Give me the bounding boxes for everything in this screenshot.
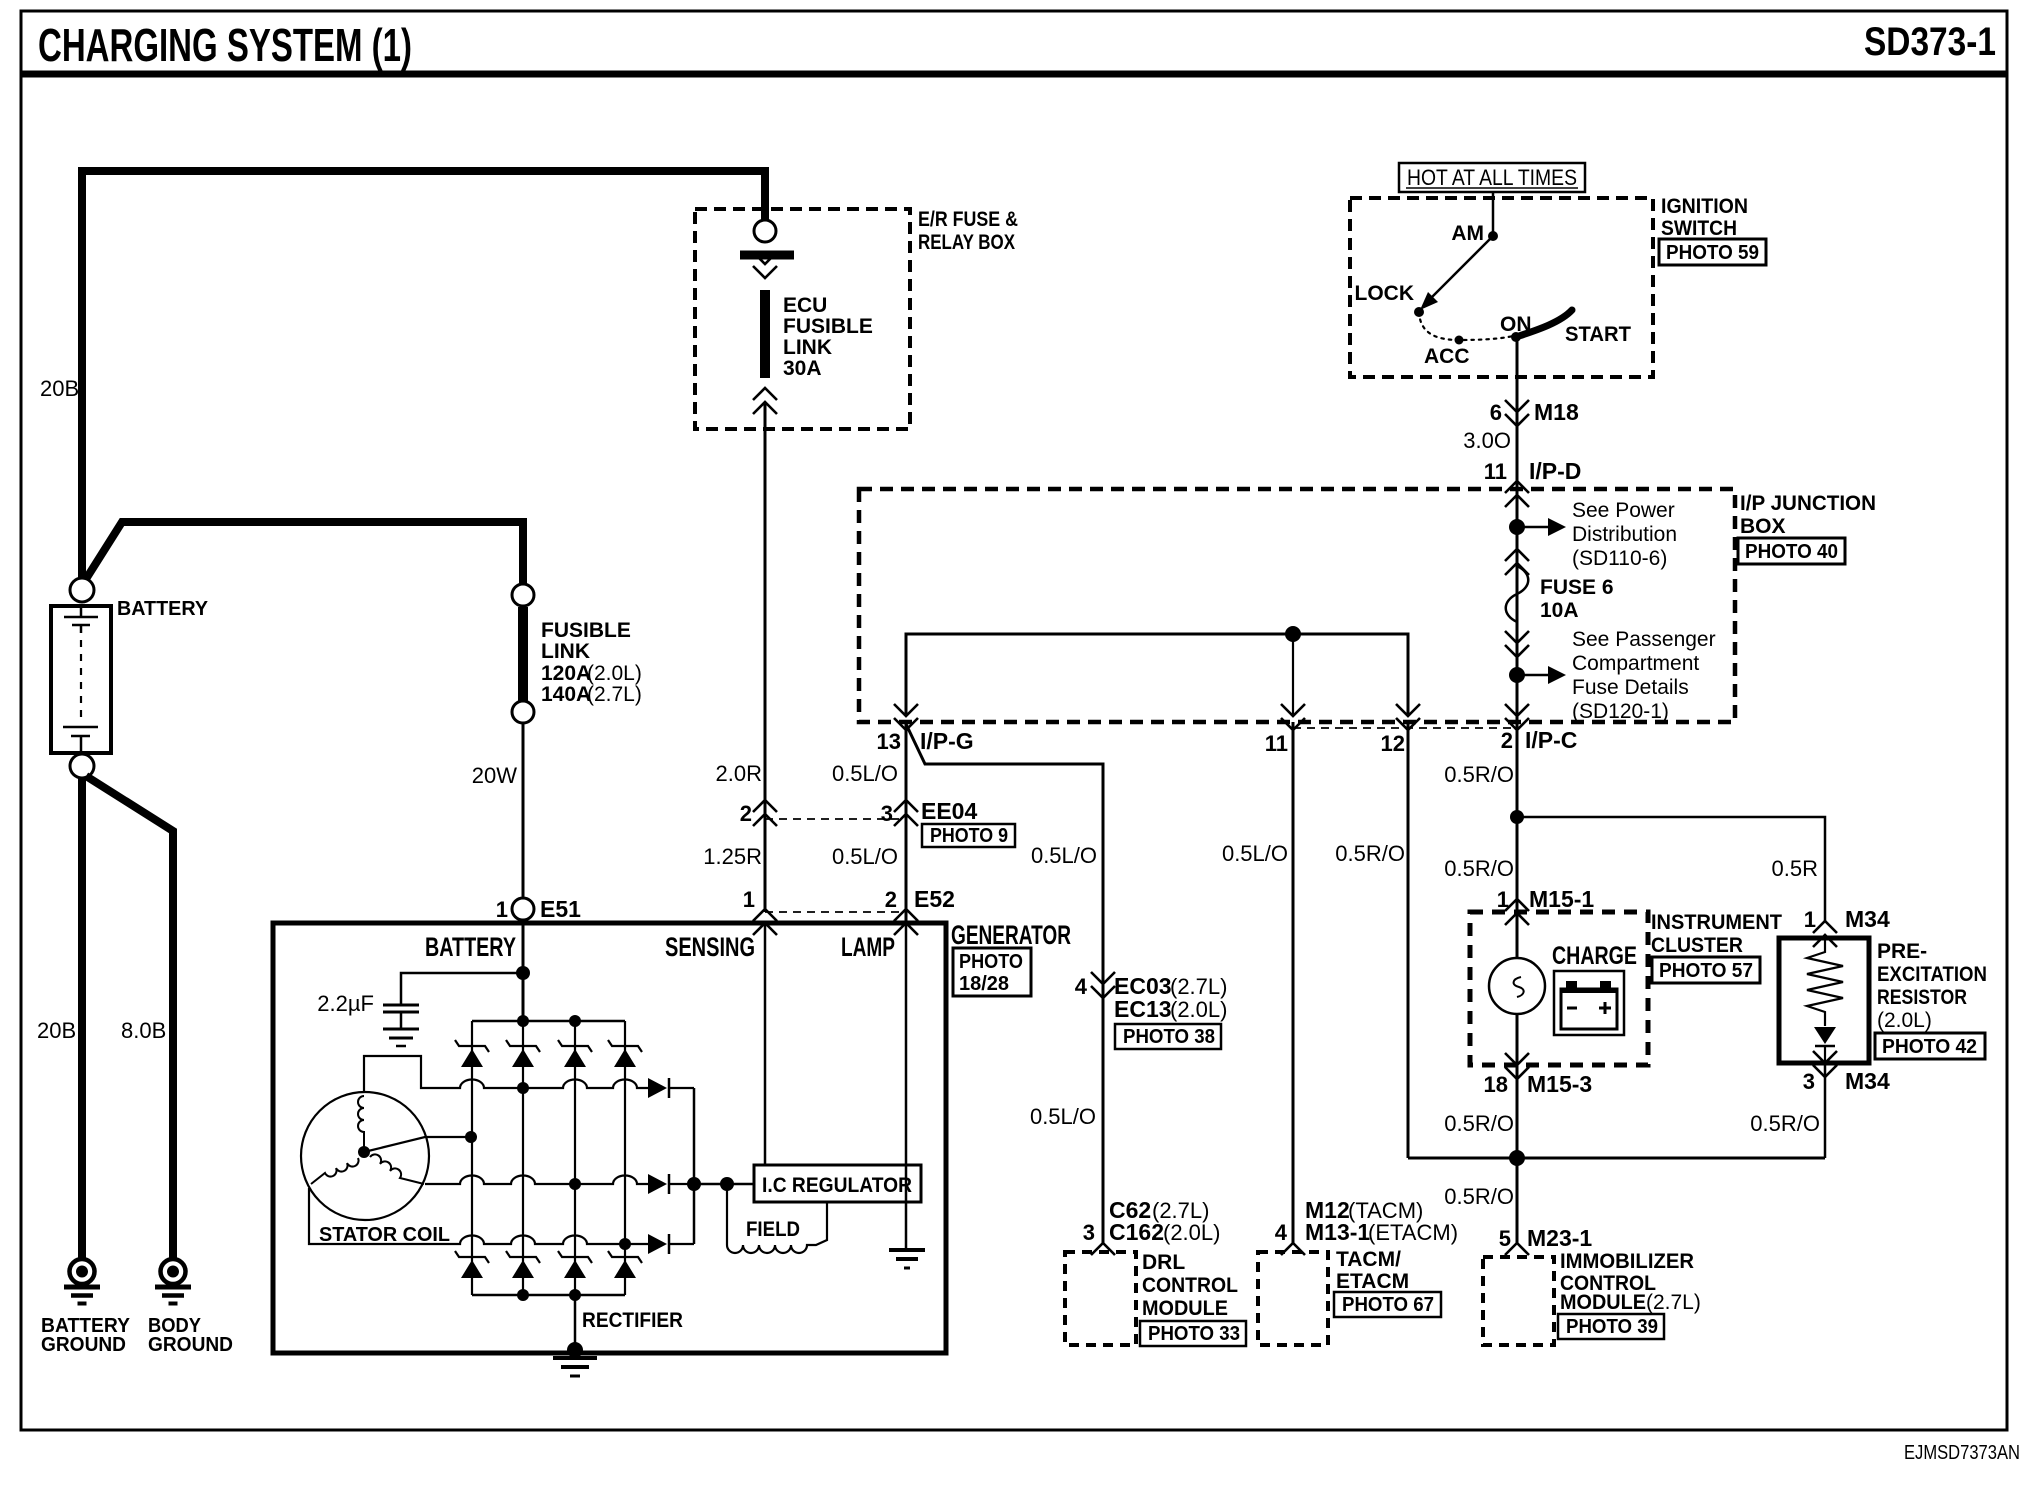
svg-text:M13-1: M13-1 <box>1305 1219 1370 1245</box>
svg-text:M18: M18 <box>1534 399 1579 425</box>
svg-text:PHOTO 39: PHOTO 39 <box>1566 1316 1658 1338</box>
connector M12 chevron <box>1281 1243 1305 1255</box>
svg-text:11: 11 <box>1265 731 1288 756</box>
svg-text:0.5R/O: 0.5R/O <box>1444 1184 1514 1209</box>
svg-text:I/P-D: I/P-D <box>1529 458 1581 484</box>
connector EE04 pin3 chevrons <box>894 800 918 812</box>
connector pin11 chevrons <box>1281 704 1305 716</box>
svg-text:18/28: 18/28 <box>959 973 1009 995</box>
ignition AM terminal dot <box>1488 231 1498 241</box>
svg-text:CHARGE: CHARGE <box>1552 942 1637 970</box>
connector E51 circle <box>512 898 534 920</box>
svg-text:GROUND: GROUND <box>148 1334 233 1356</box>
svg-text:I/P-C: I/P-C <box>1525 727 1577 753</box>
wire through cluster <box>1516 912 1519 1065</box>
node splice M23-1 <box>1509 1150 1525 1166</box>
svg-text:140A: 140A <box>541 683 591 706</box>
zener diode upper col3 <box>558 1040 592 1052</box>
svg-text:See Power: See Power <box>1572 499 1675 522</box>
svg-text:1: 1 <box>1804 907 1816 932</box>
node field tap <box>720 1177 734 1191</box>
svg-text:1: 1 <box>1497 887 1509 912</box>
svg-text:I/P-G: I/P-G <box>920 728 974 754</box>
fusible link terminal circle (bottom) <box>512 701 534 723</box>
diode row A (right) <box>648 1078 667 1098</box>
svg-text:MODULE: MODULE <box>1142 1297 1228 1320</box>
zener diode upper col2 <box>506 1040 540 1052</box>
battery terminal circle (top) <box>70 578 94 602</box>
wire ECU fusible link to EE04 pin2 <box>764 404 767 912</box>
svg-text:(2.7L): (2.7L) <box>587 683 642 706</box>
rectifier column 2 <box>522 1021 524 1295</box>
svg-text:12: 12 <box>1381 731 1405 756</box>
svg-text:RESISTOR: RESISTOR <box>1877 986 1967 1009</box>
svg-text:E51: E51 <box>540 896 581 922</box>
svg-text:18: 18 <box>1484 1072 1508 1097</box>
svg-text:0.5L/O: 0.5L/O <box>1031 843 1097 868</box>
connector EE04 dashed link <box>765 818 906 820</box>
svg-text:0.5R/O: 0.5R/O <box>1750 1111 1820 1136</box>
wire branch to M34 pin1 <box>1517 817 1825 921</box>
svg-text:SWITCH: SWITCH <box>1661 217 1737 240</box>
ignition ON terminal dot <box>1511 332 1521 342</box>
svg-text:PHOTO 33: PHOTO 33 <box>1148 1323 1240 1345</box>
connector M18 chevrons <box>1505 400 1529 412</box>
wire stator center to col1 <box>364 1137 471 1152</box>
svg-text:0.5L/O: 0.5L/O <box>1222 841 1288 866</box>
svg-text:120A: 120A <box>541 662 591 685</box>
svg-text:LINK: LINK <box>541 640 590 663</box>
svg-text:IMMOBILIZER: IMMOBILIZER <box>1560 1250 1694 1273</box>
connector E52 dashed link <box>765 911 906 913</box>
stator coil circle <box>301 1092 429 1220</box>
svg-text:(2.7L): (2.7L) <box>1646 1291 1701 1314</box>
svg-text:0.5L/O: 0.5L/O <box>832 761 898 786</box>
svg-text:2: 2 <box>1501 728 1513 753</box>
ECU fusible link terminal circle <box>754 220 776 242</box>
wire 8.0B to body ground (heavy) <box>86 776 173 1258</box>
svg-text:11: 11 <box>1484 459 1507 484</box>
svg-text:RECTIFIER: RECTIFIER <box>582 1309 683 1332</box>
svg-text:SD373-1: SD373-1 <box>1864 20 1996 64</box>
wire junction horizontal <box>1408 1157 1825 1160</box>
svg-text:(SD120-1): (SD120-1) <box>1572 700 1669 723</box>
node bottom bus col2 <box>517 1289 529 1301</box>
svg-text:FUSIBLE: FUSIBLE <box>783 315 873 338</box>
PHOTO 39 box <box>1558 1314 1664 1339</box>
zener diode lower col4 <box>608 1251 642 1263</box>
svg-text:(2.0L): (2.0L) <box>1163 1220 1220 1245</box>
svg-text:Distribution: Distribution <box>1572 523 1677 546</box>
ignition switch blade <box>1431 236 1493 298</box>
svg-text:3: 3 <box>1803 1069 1815 1094</box>
wire pin11 to M12 <box>1292 722 1295 1243</box>
rectifier top bus <box>472 1020 625 1023</box>
svg-text:(ETACM): (ETACM) <box>1368 1220 1458 1245</box>
node generator case ground <box>567 1342 583 1358</box>
rectifier column 1 <box>471 1021 473 1295</box>
wire ON to M18 <box>1516 341 1519 489</box>
svg-text:ECU: ECU <box>783 294 827 317</box>
svg-text:2: 2 <box>885 887 897 912</box>
svg-text:GENERATOR: GENERATOR <box>951 920 1071 950</box>
ignition LOCK terminal dot <box>1414 307 1424 317</box>
fuse 6 chevrons (top) <box>1505 549 1529 561</box>
svg-text:SENSING: SENSING <box>665 932 755 962</box>
ECU fusible link chevrons (bottom) <box>753 388 777 400</box>
battery ground symbol <box>70 1259 95 1284</box>
svg-text:3: 3 <box>881 801 893 826</box>
svg-text:E52: E52 <box>914 886 955 912</box>
battery BATTERY <box>51 606 111 753</box>
svg-text:RELAY BOX: RELAY BOX <box>918 231 1015 254</box>
wire to I.C regulator <box>694 1183 754 1186</box>
svg-text:BATTERY: BATTERY <box>117 598 209 620</box>
wire sensing to regulator <box>764 923 767 1165</box>
connector pin12 chevrons <box>1396 704 1420 716</box>
title band divider <box>21 71 2007 78</box>
svg-text:(SD110-6): (SD110-6) <box>1572 547 1667 570</box>
rectifier column 4 <box>624 1021 626 1295</box>
svg-text:1.25R: 1.25R <box>703 844 762 869</box>
svg-text:PHOTO 9: PHOTO 9 <box>930 825 1008 847</box>
connector EE04 pin2 chevrons <box>753 800 777 812</box>
svg-text:STATOR COIL: STATOR COIL <box>319 1224 450 1246</box>
wire I/P-G pin13 branch to EC03 <box>906 724 1103 1243</box>
ECU fusible link chevrons (top) <box>753 252 777 264</box>
svg-text:0.5L/O: 0.5L/O <box>832 844 898 869</box>
svg-text:4: 4 <box>1075 974 1088 999</box>
E/R fuse & relay box (dashed) <box>695 209 910 429</box>
svg-text:LINK: LINK <box>783 336 832 359</box>
svg-text:EC13: EC13 <box>1114 996 1172 1022</box>
connector M23-1 chevron <box>1505 1243 1529 1255</box>
rectifier bottom bus <box>472 1294 625 1297</box>
pre-excitation resistor box <box>1779 938 1869 1063</box>
fusible link 120A/140A element (heavy bar) <box>518 607 528 701</box>
svg-text:FIELD: FIELD <box>746 1218 800 1241</box>
svg-text:5: 5 <box>1499 1226 1511 1251</box>
stator phase wire row A <box>364 1056 648 1092</box>
node top bus col3 <box>569 1015 581 1027</box>
PHOTO 67 box <box>1334 1292 1441 1317</box>
svg-text:M15-1: M15-1 <box>1529 886 1594 912</box>
fusible link terminal circle (top) <box>512 584 534 606</box>
node branch to pre-excitation resistor <box>1510 810 1524 824</box>
svg-text:Fuse Details: Fuse Details <box>1572 676 1689 699</box>
svg-text:0.5R/O: 0.5R/O <box>1335 841 1405 866</box>
svg-text:0.5R/O: 0.5R/O <box>1444 856 1514 881</box>
svg-text:M34: M34 <box>1845 1068 1890 1094</box>
svg-text:2: 2 <box>740 801 752 826</box>
svg-text:PHOTO 67: PHOTO 67 <box>1342 1294 1434 1316</box>
PHOTO 57 box <box>1652 957 1760 983</box>
diode row C (right) <box>648 1234 667 1254</box>
svg-text:CONTROL: CONTROL <box>1142 1274 1238 1297</box>
node top bus col2 <box>517 1015 529 1027</box>
wire pin12 to junction <box>1407 722 1410 1158</box>
svg-text:LAMP: LAMP <box>841 932 895 962</box>
stator winding left <box>311 1158 359 1184</box>
connector M34 pin3 chevrons <box>1813 1051 1837 1063</box>
connector I/P-C pin2 chevrons <box>1505 704 1529 716</box>
svg-text:LOCK: LOCK <box>1355 282 1415 305</box>
svg-text:M34: M34 <box>1845 906 1890 932</box>
zener diode upper col1 <box>455 1040 489 1052</box>
battery terminal circle (bottom) <box>70 754 94 778</box>
PHOTO 9 box <box>922 824 1015 847</box>
wire I/P-C pin2 to M23-1 <box>1516 722 1519 1243</box>
node row C col4 <box>619 1238 631 1250</box>
svg-text:PHOTO 42: PHOTO 42 <box>1882 1036 1977 1058</box>
svg-text:(2.0L): (2.0L) <box>1877 1009 1932 1032</box>
connector I/P-D chevrons (box top) <box>1505 481 1529 493</box>
connector I/P-G pin13 chevrons <box>894 704 918 716</box>
ECU fusible link contact bar <box>740 251 794 260</box>
wire hot feed to AM <box>1492 192 1495 233</box>
battery icon <box>1561 989 1617 1029</box>
svg-text:CHARGING SYSTEM (1): CHARGING SYSTEM (1) <box>38 19 412 71</box>
wire 20B to battery ground (heavy) <box>78 777 86 1258</box>
charge indicator bulb <box>1489 958 1545 1014</box>
zener diode upper col4 <box>608 1040 642 1052</box>
svg-text:START: START <box>1565 323 1631 346</box>
rectifier column 3 <box>574 1021 576 1295</box>
svg-text:EE04: EE04 <box>921 798 977 824</box>
svg-text:ETACM: ETACM <box>1336 1270 1409 1293</box>
resistor element <box>1807 938 1843 1026</box>
wire bottom bus to case ground <box>574 1295 577 1348</box>
svg-text:TACM/: TACM/ <box>1336 1248 1401 1271</box>
wire I/P-G pin13 to E52 pin2 (lamp) <box>905 722 908 921</box>
svg-text:PHOTO 38: PHOTO 38 <box>1123 1026 1215 1048</box>
capacitor 2.2uF <box>383 1004 419 1007</box>
svg-text:20B: 20B <box>37 1018 76 1043</box>
wire fusible link to E51 <box>522 723 525 898</box>
svg-text:13: 13 <box>877 729 901 754</box>
svg-text:I/P JUNCTION: I/P JUNCTION <box>1740 492 1876 515</box>
svg-text:2.2µF: 2.2µF <box>317 991 374 1016</box>
svg-text:10A: 10A <box>1540 599 1579 622</box>
svg-text:1: 1 <box>496 897 508 922</box>
HOT AT ALL TIMES box <box>1399 163 1585 192</box>
connector I/P-C dashed link <box>1293 727 1517 729</box>
svg-text:3: 3 <box>1083 1220 1095 1245</box>
battery icon box <box>1554 971 1624 1035</box>
wire bus to pin 11 <box>1292 634 1294 714</box>
diode element (pre-excitation) <box>1814 1027 1836 1044</box>
stator phase wire row B <box>425 1176 648 1185</box>
svg-text:2.0R: 2.0R <box>716 761 762 786</box>
svg-text:ACC: ACC <box>1424 345 1470 368</box>
generator box <box>273 923 946 1353</box>
stator winding top <box>358 1096 364 1148</box>
svg-text:M23-1: M23-1 <box>1527 1225 1592 1251</box>
body ground symbol <box>161 1259 186 1284</box>
PHOTO 59 box <box>1659 239 1766 265</box>
field coil <box>726 1184 728 1242</box>
node bus to pin 11 <box>1285 626 1301 642</box>
svg-text:Compartment: Compartment <box>1572 652 1699 675</box>
svg-text:I.C REGULATOR: I.C REGULATOR <box>762 1174 912 1197</box>
I.C regulator box <box>754 1165 921 1202</box>
svg-text:PHOTO 40: PHOTO 40 <box>1745 541 1838 563</box>
capacitor ground <box>383 1028 419 1031</box>
svg-text:INSTRUMENT: INSTRUMENT <box>1651 911 1782 934</box>
svg-text:0.5R/O: 0.5R/O <box>1444 762 1514 787</box>
svg-text:EXCITATION: EXCITATION <box>1877 963 1987 986</box>
wire M34 pin3 to junction <box>1824 1063 1827 1158</box>
fuse 6 element <box>1506 566 1529 622</box>
zener diode lower col3 <box>558 1251 592 1263</box>
zener diode lower col1 <box>455 1251 489 1263</box>
svg-text:3.0O: 3.0O <box>1463 428 1511 453</box>
svg-text:C162: C162 <box>1109 1219 1164 1245</box>
stator winding right <box>370 1154 424 1184</box>
svg-text:PHOTO 59: PHOTO 59 <box>1666 242 1759 264</box>
svg-text:E/R FUSE &: E/R FUSE & <box>918 208 1018 231</box>
svg-text:EJMSD7373AN: EJMSD7373AN <box>1904 1442 2020 1464</box>
svg-text:HOT AT ALL TIMES: HOT AT ALL TIMES <box>1407 165 1577 190</box>
TACM/ETACM module box (dashed) <box>1258 1252 1328 1345</box>
zener diode lower col2 <box>506 1251 540 1263</box>
svg-text:(2.0L): (2.0L) <box>1170 997 1227 1022</box>
svg-text:0.5L/O: 0.5L/O <box>1030 1104 1096 1129</box>
svg-text:(2.0L): (2.0L) <box>587 662 642 685</box>
PHOTO 38 box <box>1115 1024 1221 1049</box>
PHOTO 40 box <box>1738 538 1845 564</box>
svg-text:See Passenger: See Passenger <box>1572 628 1716 651</box>
node col1 center tap <box>465 1131 477 1143</box>
svg-text:BATTERY: BATTERY <box>425 932 516 962</box>
wire battery positive to E/R fuse box (heavy) <box>82 171 765 578</box>
rectifier output bus <box>693 1088 696 1244</box>
node passenger fuse tap <box>1509 667 1525 683</box>
immobilizer control module box (dashed) <box>1483 1257 1554 1345</box>
PHOTO 18/28 box <box>953 948 1031 996</box>
svg-text:0.5R/O: 0.5R/O <box>1444 1111 1514 1136</box>
svg-text:0.5R: 0.5R <box>1772 856 1818 881</box>
wire battery positive to fusible link (heavy) <box>86 522 523 585</box>
node battery internal junction <box>516 966 530 980</box>
connector M15-1 chevrons <box>1505 899 1529 911</box>
svg-text:BOX: BOX <box>1740 515 1786 538</box>
svg-text:30A: 30A <box>783 357 822 380</box>
ignition detent arc (dotted) <box>1419 312 1513 340</box>
stator phase wire row C <box>309 1188 648 1244</box>
svg-text:8.0B: 8.0B <box>121 1018 166 1043</box>
svg-text:FUSIBLE: FUSIBLE <box>541 619 631 642</box>
generator case ground symbol <box>553 1356 597 1360</box>
I/P box internal bus wire <box>906 634 1408 714</box>
PHOTO 33 box <box>1140 1321 1246 1346</box>
svg-text:PHOTO 57: PHOTO 57 <box>1659 960 1753 982</box>
connector E52 pin2 chevrons <box>894 909 918 921</box>
DRL control module box (dashed) <box>1065 1252 1136 1345</box>
svg-text:(2.7L): (2.7L) <box>1170 974 1227 999</box>
svg-text:4: 4 <box>1275 1220 1288 1245</box>
wire E51 into generator <box>522 920 525 1021</box>
node row A col2 <box>517 1082 529 1094</box>
svg-text:M15-3: M15-3 <box>1527 1071 1592 1097</box>
node bottom bus col3 <box>569 1289 581 1301</box>
svg-text:DRL: DRL <box>1142 1251 1185 1274</box>
svg-text:AM: AM <box>1451 222 1484 245</box>
svg-text:PRE-: PRE- <box>1877 940 1927 963</box>
lamp ground symbol <box>889 1248 925 1252</box>
svg-text:PHOTO: PHOTO <box>959 951 1023 973</box>
connector E52 pin1 chevrons <box>753 909 777 921</box>
stator center node <box>358 1146 370 1158</box>
ignition switch box (dashed) <box>1350 198 1653 377</box>
wire lamp to ground <box>905 923 908 1248</box>
arrow see power distribution <box>1517 526 1548 529</box>
svg-text:GROUND: GROUND <box>41 1334 126 1356</box>
svg-text:IGNITION: IGNITION <box>1661 195 1748 218</box>
ECU fusible link element (heavy bar) <box>760 290 770 378</box>
ignition START arc (thick) <box>1516 310 1572 337</box>
ignition ACC terminal dot <box>1455 336 1464 345</box>
battery internal plates <box>80 606 83 616</box>
node power distribution tap <box>1509 519 1525 535</box>
arrow see passenger compartment <box>1517 674 1548 677</box>
PHOTO 42 box <box>1875 1033 1985 1059</box>
svg-text:20W: 20W <box>472 763 517 788</box>
fuse 6 chevrons (bottom) <box>1505 631 1529 643</box>
svg-text:MODULE: MODULE <box>1560 1291 1646 1314</box>
instrument cluster box (dashed) <box>1470 912 1648 1065</box>
diode row B (right) <box>648 1174 667 1194</box>
connector M15-3 chevrons <box>1505 1053 1529 1065</box>
svg-text:20B: 20B <box>40 376 79 401</box>
wire ignition feed inside I/P box <box>1516 489 1519 722</box>
node row B col3 <box>569 1178 581 1190</box>
I/P junction box (dashed) <box>859 489 1735 722</box>
connector C62 chevron <box>1091 1243 1115 1255</box>
svg-text:6: 6 <box>1490 400 1502 425</box>
svg-text:FUSE 6: FUSE 6 <box>1540 576 1614 599</box>
connector M34 pin1 chevrons <box>1813 921 1837 933</box>
node output bus row B <box>687 1177 701 1191</box>
svg-text:CLUSTER: CLUSTER <box>1651 934 1743 957</box>
svg-text:1: 1 <box>743 887 755 912</box>
connector EC03 chevrons <box>1091 972 1115 984</box>
wire to capacitor <box>401 973 523 1004</box>
